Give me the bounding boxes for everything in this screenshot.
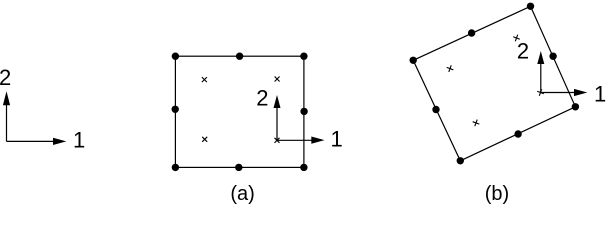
node dot b2 (upper-left mid) [468,29,475,36]
caption (a) [230,183,254,205]
element (b) rotated quadrilateral outline [413,6,575,161]
svg-text:2: 2 [0,65,11,90]
integration point x b2 (rotated, left) [447,65,454,72]
node dot b6 (bottom-right mid) [514,130,521,137]
svg-text:(b): (b) [485,183,509,205]
local axis 2 of element (b) [537,51,544,93]
svg-text:(a): (a) [230,183,254,205]
node dot b1 (top corner) [527,3,534,10]
caption (b) [485,183,509,205]
svg-text:1: 1 [594,82,606,107]
element (a) square outline [175,56,304,167]
node dot a7 (bottom mid) [235,164,242,171]
svg-text:1: 1 [73,128,85,153]
node dot a5 (right mid) [300,108,307,115]
global axis 1 (left, horizontal arrow) [7,138,67,145]
integration point x a1 (top-left) [202,77,207,82]
integration point x a4 (at local axes origin) [275,138,280,143]
node dot a2 (top mid) [236,53,243,60]
label 2 (element b axes) [517,38,529,63]
svg-text:2: 2 [517,38,529,63]
integration point x b1 (rotated, upper) [513,35,520,42]
local axis 1 of element (a) [277,137,325,144]
label 2 (element a axes) [256,85,268,110]
integration point x a3 (bottom-left) [202,137,207,142]
label 1 (element a axes) [331,127,343,152]
node dot a8 (bottom-right corner) [300,164,307,171]
node dot b4 (lower-left mid) [432,106,439,113]
label 2 (left axes) [0,65,11,90]
integration point x a2 (top-right) [275,77,280,82]
node dot a3 (top-right corner) [300,53,307,60]
node dot b8 (upper-right mid) [549,53,556,60]
label 1 (element b axes) [594,82,606,107]
local axis 2 of element (a) [274,95,281,140]
node dot a1 (top-left corner) [172,53,179,60]
label 1 (left axes) [73,128,85,153]
integration point x b4 (rotated, at local axes origin) [537,89,544,96]
node dot b7 (right corner) [572,103,579,110]
node dot b5 (bottom corner) [457,157,464,164]
svg-text:1: 1 [331,127,343,152]
node dot b3 (left corner) [410,57,417,64]
integration point x b3 (rotated, bottom) [473,120,480,127]
svg-text:2: 2 [256,85,268,110]
local axis 1 of element (b) [541,89,588,96]
node dot a4 (left mid) [172,106,179,113]
node dot a6 (bottom-left corner) [172,164,179,171]
global axis 2 (left, vertical arrow) [3,91,10,141]
